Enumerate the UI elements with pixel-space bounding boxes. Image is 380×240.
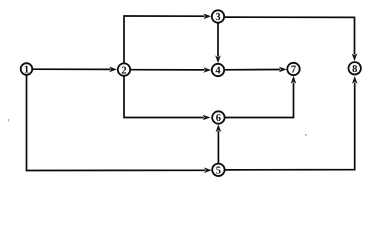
wire 1->2 [33,67,118,73]
wire 2->3 [124,14,211,64]
svg-text:6: 6 [216,113,221,124]
svg-text:4: 4 [215,66,221,77]
svg-text:1: 1 [24,65,29,76]
svg-text:7: 7 [291,65,296,76]
svg-text:2: 2 [121,65,126,76]
wire 2->4 [131,67,212,73]
node 5 [212,164,224,177]
wire 5->6 [216,124,222,163]
node 6 [212,111,224,124]
wire 3->8 [225,17,358,61]
node 3 [212,10,224,23]
node 2 [118,63,130,76]
wire 1->5 [27,75,212,173]
wire 2->6 [124,76,211,120]
svg-text:8: 8 [352,64,357,75]
wire 3->4 [215,23,221,63]
node 4 [212,64,224,77]
node 8 [349,62,361,75]
wire 4->7 [225,67,287,73]
node 1 [21,63,33,75]
svg-text:3: 3 [215,12,220,23]
wire 5->8 [225,76,357,170]
svg-text:5: 5 [216,166,221,177]
node 7 [287,63,299,76]
wire 6->7 [225,76,296,118]
